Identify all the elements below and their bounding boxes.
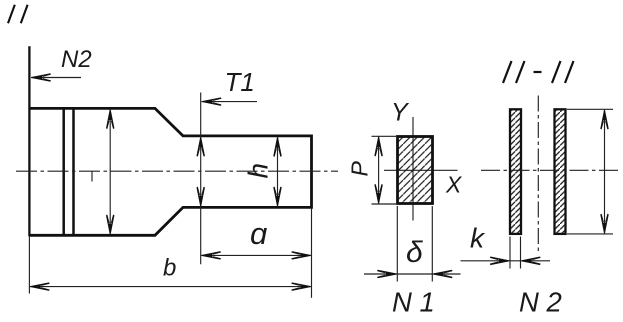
dimension a [201,252,312,259]
left bar (hatched) [510,109,521,234]
svg-text:N 1: N 1 [392,286,435,317]
dimension b [29,283,311,290]
right bar (hatched) [555,109,566,234]
left edge vertical line [28,46,30,236]
part outline [29,108,311,235]
k dimension line [461,257,551,264]
Y axis [412,117,414,221]
svg-text:P: P [347,161,373,177]
k extension lines [510,237,521,269]
right extension line below part [311,208,313,298]
X axis [384,169,458,171]
vertical centerline N2 [537,96,539,253]
svg-text:X: X [445,171,463,197]
extension line through step (T1 / a) [200,93,202,265]
dimension line P [375,137,382,205]
dimension arrows at step line [197,137,204,206]
leader N2 [31,74,81,81]
height extension lines [567,109,613,234]
inner double line 2 [72,107,75,236]
svg-text:k: k [470,223,486,254]
leader T1 [202,98,258,105]
left extension line below part (for b) [28,236,30,294]
svg-text:b: b [163,255,176,282]
svg-text:Y: Y [391,99,410,127]
dimension line h [274,137,281,207]
svg-text:ɑ: ɑ [250,216,267,251]
svg-text:T1: T1 [225,67,255,97]
centerline tick [91,171,93,181]
height dimension line [601,110,608,234]
dimension line wide height [107,109,114,235]
section rectangle N1 (hatched) [398,137,433,204]
svg-text:N2: N2 [61,46,92,73]
svg-text:h: h [243,163,274,179]
inner double line 1 [62,107,65,236]
svg-text:δ: δ [406,236,423,269]
section label // - // [503,61,574,83]
svg-text:N 2: N 2 [519,286,562,317]
centerline of part [16,170,338,172]
horizontal centerline N2 [481,169,620,171]
delta extension lines [397,206,432,282]
dimension line delta [364,270,461,277]
P extension lines [372,136,397,204]
section mark // top-left [8,5,28,23]
